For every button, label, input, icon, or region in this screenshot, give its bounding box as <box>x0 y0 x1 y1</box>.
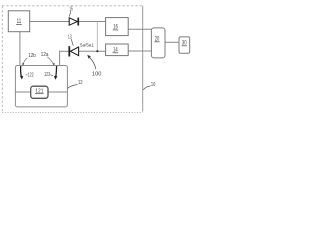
svg-text:12b: 12b <box>28 53 36 59</box>
svg-text:13: 13 <box>68 35 72 41</box>
svg-text:122: 122 <box>28 72 34 78</box>
svg-text:12a: 12a <box>41 52 49 58</box>
svg-text:15: 15 <box>69 6 73 12</box>
svg-text:12: 12 <box>78 80 83 86</box>
svg-text:10: 10 <box>151 82 155 88</box>
svg-text:123: 123 <box>44 72 50 78</box>
svg-text:5a/5a1: 5a/5a1 <box>80 42 94 47</box>
svg-text:100: 100 <box>92 71 102 77</box>
